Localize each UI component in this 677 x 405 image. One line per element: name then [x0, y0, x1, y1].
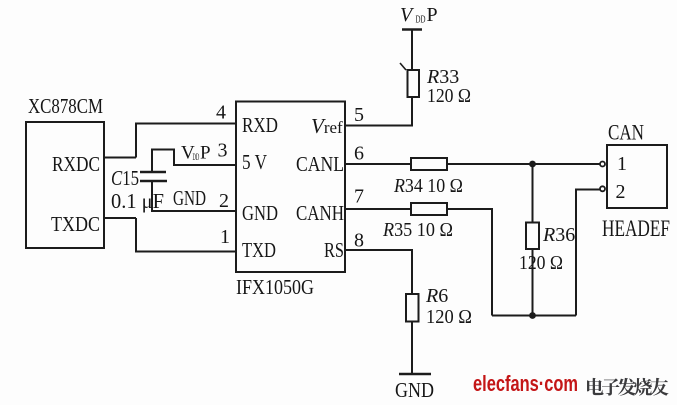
svg-text:IFX1050G: IFX1050G: [236, 275, 314, 299]
wire C15 bottom to GND pin2: [152, 181, 236, 211]
logo char 发: [618, 378, 636, 396]
svg-text:Vref: Vref: [311, 114, 343, 138]
wire R36 to bottom rail: [532, 249, 534, 316]
wire R33 to pin5: [345, 97, 412, 126]
logo char 友: [650, 378, 668, 396]
svg-text:RS: RS: [324, 238, 344, 262]
svg-text:HEADEF: HEADEF: [602, 216, 670, 241]
connector J1 HEADEF body: [607, 145, 667, 208]
capacitor C15 top plate: [140, 171, 166, 174]
connector pin 1 circle: [600, 162, 605, 167]
logo char 子: [602, 378, 620, 395]
wire pin6 CANL to R34: [345, 163, 411, 165]
svg-text:RXD: RXD: [242, 113, 278, 137]
power bar VDDP: [402, 28, 422, 31]
wire pin8 RS to R6: [345, 250, 412, 294]
wire CANL to header pin1: [447, 163, 601, 165]
svg-text:GND: GND: [173, 186, 206, 210]
svg-text:1: 1: [617, 153, 627, 175]
wire junction to R36: [532, 164, 534, 223]
svg-text:120 Ω: 120 Ω: [426, 306, 472, 328]
svg-text:0.1 μF: 0.1 μF: [111, 189, 164, 213]
wire C15 top to VDDP: [152, 150, 236, 173]
svg-text:elecfans·com: elecfans·com: [473, 371, 578, 396]
resistor R36 body: [526, 223, 539, 250]
svg-text:120 Ω: 120 Ω: [427, 85, 471, 107]
wire pin7 CANH to R35: [345, 208, 411, 210]
svg-text:CANH: CANH: [296, 201, 344, 225]
svg-text:CAN: CAN: [608, 120, 644, 145]
svg-text:120 Ω: 120 Ω: [519, 252, 563, 274]
svg-text:TXDC: TXDC: [51, 212, 100, 236]
resistor R34 body: [411, 158, 447, 170]
connector pin 2 circle: [600, 186, 605, 191]
svg-text:XC878CM: XC878CM: [28, 94, 103, 118]
svg-text:GND: GND: [395, 378, 434, 402]
wire CANH down to rail: [447, 209, 492, 316]
IC U1 IFX1050G body: [236, 102, 345, 273]
svg-text:R6: R6: [425, 285, 448, 307]
svg-text:5: 5: [354, 104, 364, 126]
svg-text:5 V: 5 V: [242, 150, 267, 174]
svg-text:CANL: CANL: [296, 152, 344, 176]
logo char 烧: [634, 378, 652, 396]
svg-text:2: 2: [616, 181, 626, 203]
svg-text:RXDC: RXDC: [52, 152, 100, 176]
MCU block XC878CM: [26, 122, 104, 248]
ground bar: [399, 373, 431, 376]
wire RXDC stub: [104, 157, 136, 159]
svg-text:2: 2: [219, 190, 229, 212]
svg-text:R36: R36: [542, 224, 575, 246]
wire TXDC stub: [104, 217, 136, 219]
svg-text:C15: C15: [111, 166, 139, 190]
junction node R36/rail: [529, 312, 536, 319]
svg-text:7: 7: [354, 186, 364, 208]
resistor R6 body: [406, 294, 419, 322]
wire rail up to header pin2: [576, 190, 600, 316]
svg-text:8: 8: [354, 230, 364, 252]
svg-text:3: 3: [218, 140, 228, 162]
svg-text:R34 10 Ω: R34 10 Ω: [393, 175, 463, 197]
wire VDDP to R33: [411, 30, 413, 71]
svg-text:1: 1: [220, 226, 230, 248]
resistor R35 body: [411, 203, 447, 215]
svg-text:R35 10 Ω: R35 10 Ω: [382, 219, 453, 241]
svg-text:6: 6: [354, 143, 364, 165]
wire R6 to GND: [411, 322, 413, 375]
junction node CANL/R36: [529, 161, 536, 168]
resistor R33 body: [408, 70, 420, 97]
capacitor C15 bottom plate: [140, 180, 167, 183]
svg-text:TXD: TXD: [242, 238, 276, 262]
svg-text:4: 4: [216, 102, 226, 124]
svg-text:GND: GND: [242, 201, 278, 225]
tick mark at R33: [400, 63, 406, 70]
wire RXDC to RXD pin4: [136, 124, 236, 158]
logo char 电: [587, 378, 603, 395]
wire bottom rail: [492, 315, 576, 317]
wire TXDC to TXD pin1: [136, 218, 236, 252]
